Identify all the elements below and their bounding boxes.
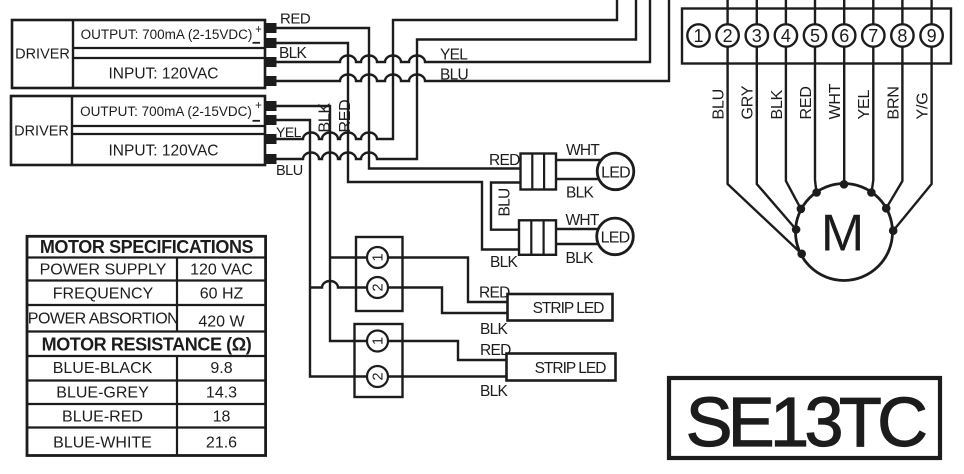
driver U1 minus sign: [253, 42, 261, 44]
switch S2 circle 1: [367, 331, 388, 352]
svg-text:DRIVER: DRIVER: [15, 47, 70, 63]
svg-text:STRIP LED: STRIP LED: [533, 300, 605, 317]
svg-text:BRN: BRN: [885, 86, 902, 119]
motor node dot RED: [812, 188, 821, 197]
driver U1 box: [12, 20, 265, 88]
STRIP LED 2 box: [507, 354, 616, 381]
svg-text:YEL: YEL: [856, 90, 873, 120]
wire terminal 7 YEL to motor: [872, 0, 874, 192]
terminal 9: [920, 24, 942, 46]
LED2: [597, 218, 634, 255]
motor node dot YEL: [867, 188, 876, 197]
svg-text:BLK: BLK: [566, 250, 595, 267]
svg-text:MOTOR RESISTANCE (Ω): MOTOR RESISTANCE (Ω): [42, 335, 252, 355]
svg-text:POWER ABSORTION: POWER ABSORTION: [28, 311, 178, 328]
svg-text:60 HZ: 60 HZ: [200, 286, 244, 303]
svg-text:9.8: 9.8: [210, 360, 232, 377]
motor node dot BLK: [797, 205, 806, 214]
terminal 5: [804, 24, 826, 46]
svg-text:1: 1: [693, 26, 703, 46]
driver U2 terminals: [265, 101, 277, 164]
svg-text:420 W: 420 W: [198, 314, 245, 331]
svg-text:FREQUENCY: FREQUENCY: [53, 286, 154, 303]
svg-text:BLK: BLK: [317, 103, 334, 133]
switch S1 circle 2: [367, 277, 388, 298]
svg-text:BLK: BLK: [480, 321, 509, 338]
svg-text:120 VAC: 120 VAC: [190, 262, 253, 279]
driver U2 box: [11, 96, 265, 165]
svg-text:8: 8: [897, 26, 907, 46]
svg-text:2: 2: [371, 372, 387, 380]
svg-text:GRY: GRY: [740, 85, 757, 119]
wire driver1 output - BLK: right, down, right, down to connector J2 lower pin: [274, 43, 519, 250]
wire BLK connector J1 to LED1: [556, 178, 600, 180]
terminal 7: [862, 24, 884, 46]
wire terminal 8 BRN to motor: [886, 0, 902, 208]
svg-text:7: 7: [868, 26, 878, 46]
wire driver1 input YEL: right with 4 hops then up off top edge: [274, 0, 650, 62]
terminal 2: [716, 24, 738, 46]
terminal 4: [775, 24, 797, 46]
svg-text:BLK: BLK: [566, 185, 595, 202]
wire driver2 input YEL: right with 4 hops, up, right, up off top edge: [274, 0, 617, 139]
svg-text:18: 18: [213, 409, 231, 426]
terminal 1: [687, 24, 709, 46]
wire branch BLK to switch box S1 circle 2 with hop, to STRIP LED 1: [310, 281, 508, 313]
svg-text:BLU: BLU: [711, 89, 728, 120]
svg-text:RED: RED: [480, 342, 511, 359]
wire terminal 4 BLK to motor: [786, 0, 801, 209]
svg-text:BLK: BLK: [490, 254, 519, 271]
svg-text:21.6: 21.6: [206, 435, 237, 452]
model label SE13TC box: [669, 378, 940, 458]
terminal 6: [833, 24, 855, 46]
svg-text:INPUT: 120VAC: INPUT: 120VAC: [109, 66, 219, 83]
svg-text:1: 1: [371, 337, 387, 345]
connector J1: [521, 154, 557, 190]
svg-text:BLU: BLU: [276, 163, 303, 179]
svg-text:INPUT: 120VAC: INPUT: 120VAC: [109, 143, 219, 160]
svg-text:OUTPUT: 700mA (2-15VDC): OUTPUT: 700mA (2-15VDC): [80, 104, 252, 119]
switch box S2: [355, 324, 403, 397]
svg-text:RED: RED: [337, 100, 354, 133]
svg-text:5: 5: [810, 26, 820, 46]
terminal strip TB1: [682, 9, 951, 64]
motor specifications table: [27, 236, 266, 455]
wire branch RED to switch box S1 circle 1 then to STRIP LED 1: [330, 258, 508, 303]
svg-text:STRIP LED: STRIP LED: [535, 360, 607, 377]
wire terminal 6 WHT to motor: [843, 0, 845, 184]
svg-text:RED: RED: [479, 285, 510, 302]
wire driver2 input BLU: right with 4 hops, up, right, up off top edge: [274, 0, 636, 159]
terminal 3: [746, 24, 768, 46]
svg-text:+: +: [255, 100, 262, 112]
wire terminal 9 Y/G to motor: [893, 0, 931, 231]
svg-text:WHT: WHT: [827, 83, 844, 119]
STRIP LED 1 box: [508, 294, 613, 321]
motor node dot BLU: [797, 250, 806, 259]
svg-text:9: 9: [927, 26, 937, 46]
wire driver2 output - BLK: right, down to switch box S2 circle 2, to STRIP LED 2: [274, 120, 507, 377]
wire driver2 output + RED: right, down to switch box S2 circle 1: [274, 106, 507, 360]
svg-text:RED: RED: [489, 152, 520, 169]
motor node dot BRN: [882, 204, 891, 213]
wire WHT connector J1 to LED1: [556, 159, 602, 161]
svg-text:Y/G: Y/G: [915, 93, 932, 120]
motor node dot WHT: [840, 180, 849, 189]
svg-text:BLK: BLK: [769, 89, 786, 119]
wire terminal 2 BLU to motor: [728, 0, 802, 254]
svg-text:MOTOR SPECIFICATIONS: MOTOR SPECIFICATIONS: [40, 237, 254, 257]
driver U2 labels: [14, 100, 262, 160]
switch S2 circle 2: [367, 366, 388, 387]
wire BLK connector J2 to LED2: [556, 243, 599, 245]
svg-text:BLU: BLU: [497, 188, 514, 216]
connector J2: [519, 220, 556, 255]
driver U2 minus sign: [253, 120, 261, 122]
svg-text:BLUE-RED: BLUE-RED: [62, 409, 143, 426]
switch S1 circle 1: [367, 247, 388, 268]
wire WHT connector J2 to LED2: [556, 228, 599, 230]
svg-text:BLUE-WHITE: BLUE-WHITE: [53, 435, 152, 452]
driver U1 terminals: [265, 23, 277, 86]
svg-text:+: +: [255, 24, 262, 36]
svg-text:BLK: BLK: [480, 383, 509, 400]
svg-text:14.3: 14.3: [206, 385, 237, 402]
wire terminal 3 GRY to motor: [757, 0, 796, 230]
svg-text:3: 3: [752, 26, 762, 46]
wire BLU daisy chain connector J1 lower pin to connector J2 upper pin: [491, 183, 521, 230]
terminal 8: [891, 24, 913, 46]
svg-text:2: 2: [371, 283, 387, 291]
svg-text:POWER SUPPLY: POWER SUPPLY: [40, 262, 167, 279]
svg-text:BLUE-BLACK: BLUE-BLACK: [53, 360, 153, 377]
switch box S1: [356, 237, 403, 311]
svg-text:2: 2: [723, 26, 733, 46]
driver U1 labels: [15, 24, 262, 83]
svg-text:BLU: BLU: [440, 67, 468, 84]
svg-text:4: 4: [781, 26, 791, 46]
svg-text:SE13TC: SE13TC: [686, 383, 925, 461]
motor M: [796, 184, 893, 281]
motor node dot GRY: [792, 225, 801, 234]
svg-text:YEL: YEL: [440, 47, 468, 64]
wire driver1 output + RED: right then down to LED connector J1: [274, 28, 521, 169]
svg-text:BLUE-GREY: BLUE-GREY: [56, 385, 149, 402]
svg-text:RED: RED: [798, 86, 815, 119]
svg-text:1: 1: [371, 253, 387, 261]
svg-text:LED: LED: [601, 230, 630, 247]
svg-text:WHT: WHT: [566, 142, 600, 159]
svg-text:LED: LED: [601, 165, 630, 182]
svg-text:YEL: YEL: [276, 124, 302, 140]
svg-text:OUTPUT: 700mA (2-15VDC): OUTPUT: 700mA (2-15VDC): [81, 27, 253, 42]
motor node dot Y/G: [889, 226, 898, 235]
svg-text:DRIVER: DRIVER: [14, 124, 69, 140]
wire driver1 input BLU: right with 4 hops then up off top edge: [274, 0, 669, 81]
LED1: [597, 153, 634, 190]
svg-text:6: 6: [839, 26, 849, 46]
svg-text:RED: RED: [280, 11, 311, 28]
svg-text:WHT: WHT: [566, 212, 600, 229]
svg-text:M: M: [821, 205, 864, 263]
svg-text:BLK: BLK: [279, 45, 308, 62]
wire terminal 5 RED to motor: [815, 0, 816, 192]
